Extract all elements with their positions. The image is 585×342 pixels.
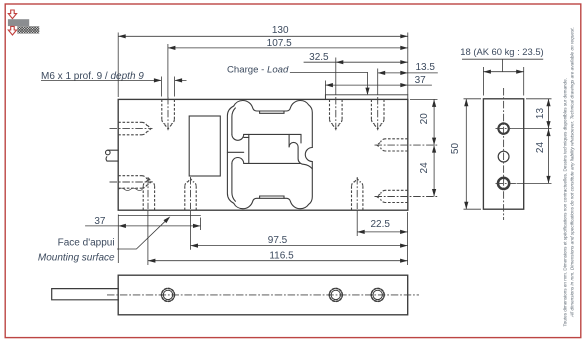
right hole lower centerline (375, 196, 438, 198)
central cutout lower bridge inner edge (260, 196, 284, 198)
bottom face tapped hole at 116.5 (143, 179, 154, 211)
dim 97.5 line (191, 245, 408, 247)
break squiggle under left lower hole (119, 188, 143, 190)
svg-text:All dimensions in mm. Dimensio: All dimensions in mm. Dimensions and spe… (570, 27, 575, 318)
Charge leader line (290, 72, 368, 94)
inner boss left edge (248, 134, 250, 163)
end view hole 1 cross centerline (496, 128, 512, 130)
svg-text:24: 24 (535, 142, 546, 154)
bottom extension 22.5 (356, 211, 358, 236)
mounting surface leader (117, 219, 168, 249)
right hole upper centerline (375, 144, 438, 146)
dim 24 line (548, 129, 550, 184)
svg-text:32.5: 32.5 (309, 52, 329, 63)
hole 22.5 centerline (356, 177, 358, 209)
svg-text:130: 130 (272, 25, 289, 36)
left end face hole lower (118, 176, 151, 189)
left notch upper (232, 134, 244, 140)
svg-text:37: 37 (94, 216, 106, 227)
dim 13 extensions (512, 99, 552, 129)
dim 20 line (433, 99, 435, 145)
dim 130 line (118, 35, 408, 37)
left end face hole upper (118, 122, 151, 135)
svg-text:Charge - Load: Charge - Load (227, 64, 289, 75)
inner boss rectangle top edge (244, 134, 301, 143)
plan hole 3 (371, 288, 384, 301)
dim 107.5 line (168, 47, 408, 49)
dim 116.5 line (148, 260, 408, 262)
svg-text:50: 50 (450, 143, 461, 155)
body outline (118, 99, 408, 210)
svg-text:107.5: 107.5 (267, 38, 292, 49)
BOTTOM (plan) VIEW body (118, 275, 408, 315)
svg-text:18 (AK 60 kg : 23.5): 18 (AK 60 kg : 23.5) (460, 46, 543, 57)
end view hole 2 (cable) (498, 151, 509, 162)
END VIEW body (483, 99, 523, 209)
left notch lower (232, 158, 244, 164)
end view vertical centerline (503, 88, 505, 220)
svg-text:13.5: 13.5 (415, 62, 435, 73)
left slot inner wall upper (232, 108, 236, 134)
dim 13.5 line (378, 72, 438, 74)
dim 50 line (465, 99, 467, 209)
svg-text:22.5: 22.5 (370, 219, 390, 230)
plan hole 2 (329, 288, 342, 301)
dim 18 extension lines (483, 67, 523, 96)
cable in plan view (52, 289, 119, 300)
mid web line (227, 151, 243, 153)
extension line 13.5 (377, 69, 379, 95)
extension line left edge top (117, 33, 119, 98)
central cutout upper bridge inner edge (260, 111, 284, 113)
inner boss rectangle bottom edge (244, 162, 301, 164)
M6 hole centerline (167, 97, 169, 131)
extension line right edge top (407, 33, 409, 95)
dim 24 line (433, 145, 435, 196)
svg-text:24: 24 (419, 162, 430, 174)
plan hole 1 (162, 288, 175, 301)
svg-text:13: 13 (535, 108, 546, 120)
left hole lower centerline (110, 181, 153, 183)
bottom face tapped hole at 22.5 (352, 179, 363, 211)
end view hole 1 (498, 123, 508, 133)
mounting surface line under body (118, 214, 201, 216)
svg-text:20: 20 (419, 113, 430, 125)
bottom extension right edge (407, 212, 409, 265)
svg-text:37: 37 (415, 75, 427, 86)
end view hole 3 (498, 178, 509, 189)
cable exit stub on left edge (106, 150, 118, 161)
hole 32.5 centerline (335, 97, 337, 131)
M6 leader line (41, 79, 187, 81)
inner boss step top-left (244, 136, 249, 138)
top face tapped hole at 13.5 (371, 99, 384, 128)
dim 24 extensions (517, 182, 552, 184)
raised load platform edge top-right (325, 95, 407, 100)
bottom extension 37 end (200, 218, 202, 231)
bottom extension line left edge (117, 215, 119, 264)
top edge right extension (410, 98, 438, 100)
central cutout lower contour (234, 162, 313, 209)
left hole upper centerline (110, 128, 153, 130)
svg-text:Face d'appui: Face d'appui (58, 238, 115, 249)
load direction icon: red arrow 2 (8, 26, 16, 35)
hole 13.5 centerline (377, 97, 379, 131)
header underline leader (462, 59, 543, 71)
M6 hole side extensions (161, 77, 174, 97)
svg-text:Mounting surface: Mounting surface (38, 252, 115, 263)
plan view centerline (107, 294, 419, 296)
dim 37 bottom line (85, 225, 200, 227)
hole 97.5 centerline (190, 177, 192, 209)
M6 tapped hole (top face, hidden) (162, 99, 175, 128)
dim 18 line (483, 71, 523, 73)
cable end loop (106, 150, 111, 155)
end view hole 3 cross centerline (496, 182, 517, 184)
load direction icon: hatched base (17, 26, 39, 33)
dim 32.5 line (304, 61, 408, 63)
extension line 107.5 / M6 center (167, 44, 169, 97)
inner boss right edge (288, 134, 290, 147)
bottom extension 116.5 (147, 211, 149, 265)
right end face hole lower (377, 190, 408, 202)
gauge pocket rectangle (189, 116, 220, 176)
extension line 37 top (324, 81, 326, 100)
load direction icon: grey beam (8, 19, 29, 26)
dim 13 line (548, 99, 550, 129)
svg-text:116.5: 116.5 (269, 250, 294, 261)
top face tapped hole at 32.5 (330, 99, 343, 128)
bottom extension 97.5 (190, 211, 192, 250)
load direction icon: red arrow 1 (8, 10, 16, 19)
left slot outer wall (227, 106, 233, 203)
svg-text:Toutes dimensions en mm. Dimen: Toutes dimensions en mm. Dimensions et s… (563, 78, 568, 326)
svg-text:97.5: 97.5 (268, 235, 288, 246)
hole 116.5 centerline (147, 177, 149, 209)
dim 22.5 line (357, 231, 407, 233)
dim 37 top line (325, 84, 432, 86)
right end face hole upper (377, 139, 408, 151)
right wall notch (305, 148, 312, 162)
right inner bump (289, 142, 312, 168)
dim 50 extensions (464, 99, 482, 209)
extension line 32.5 (335, 58, 337, 95)
bottom face tapped hole at 97.5 (185, 179, 196, 211)
left slot inner wall lower (232, 163, 236, 201)
central cutout upper contour (234, 100, 313, 147)
